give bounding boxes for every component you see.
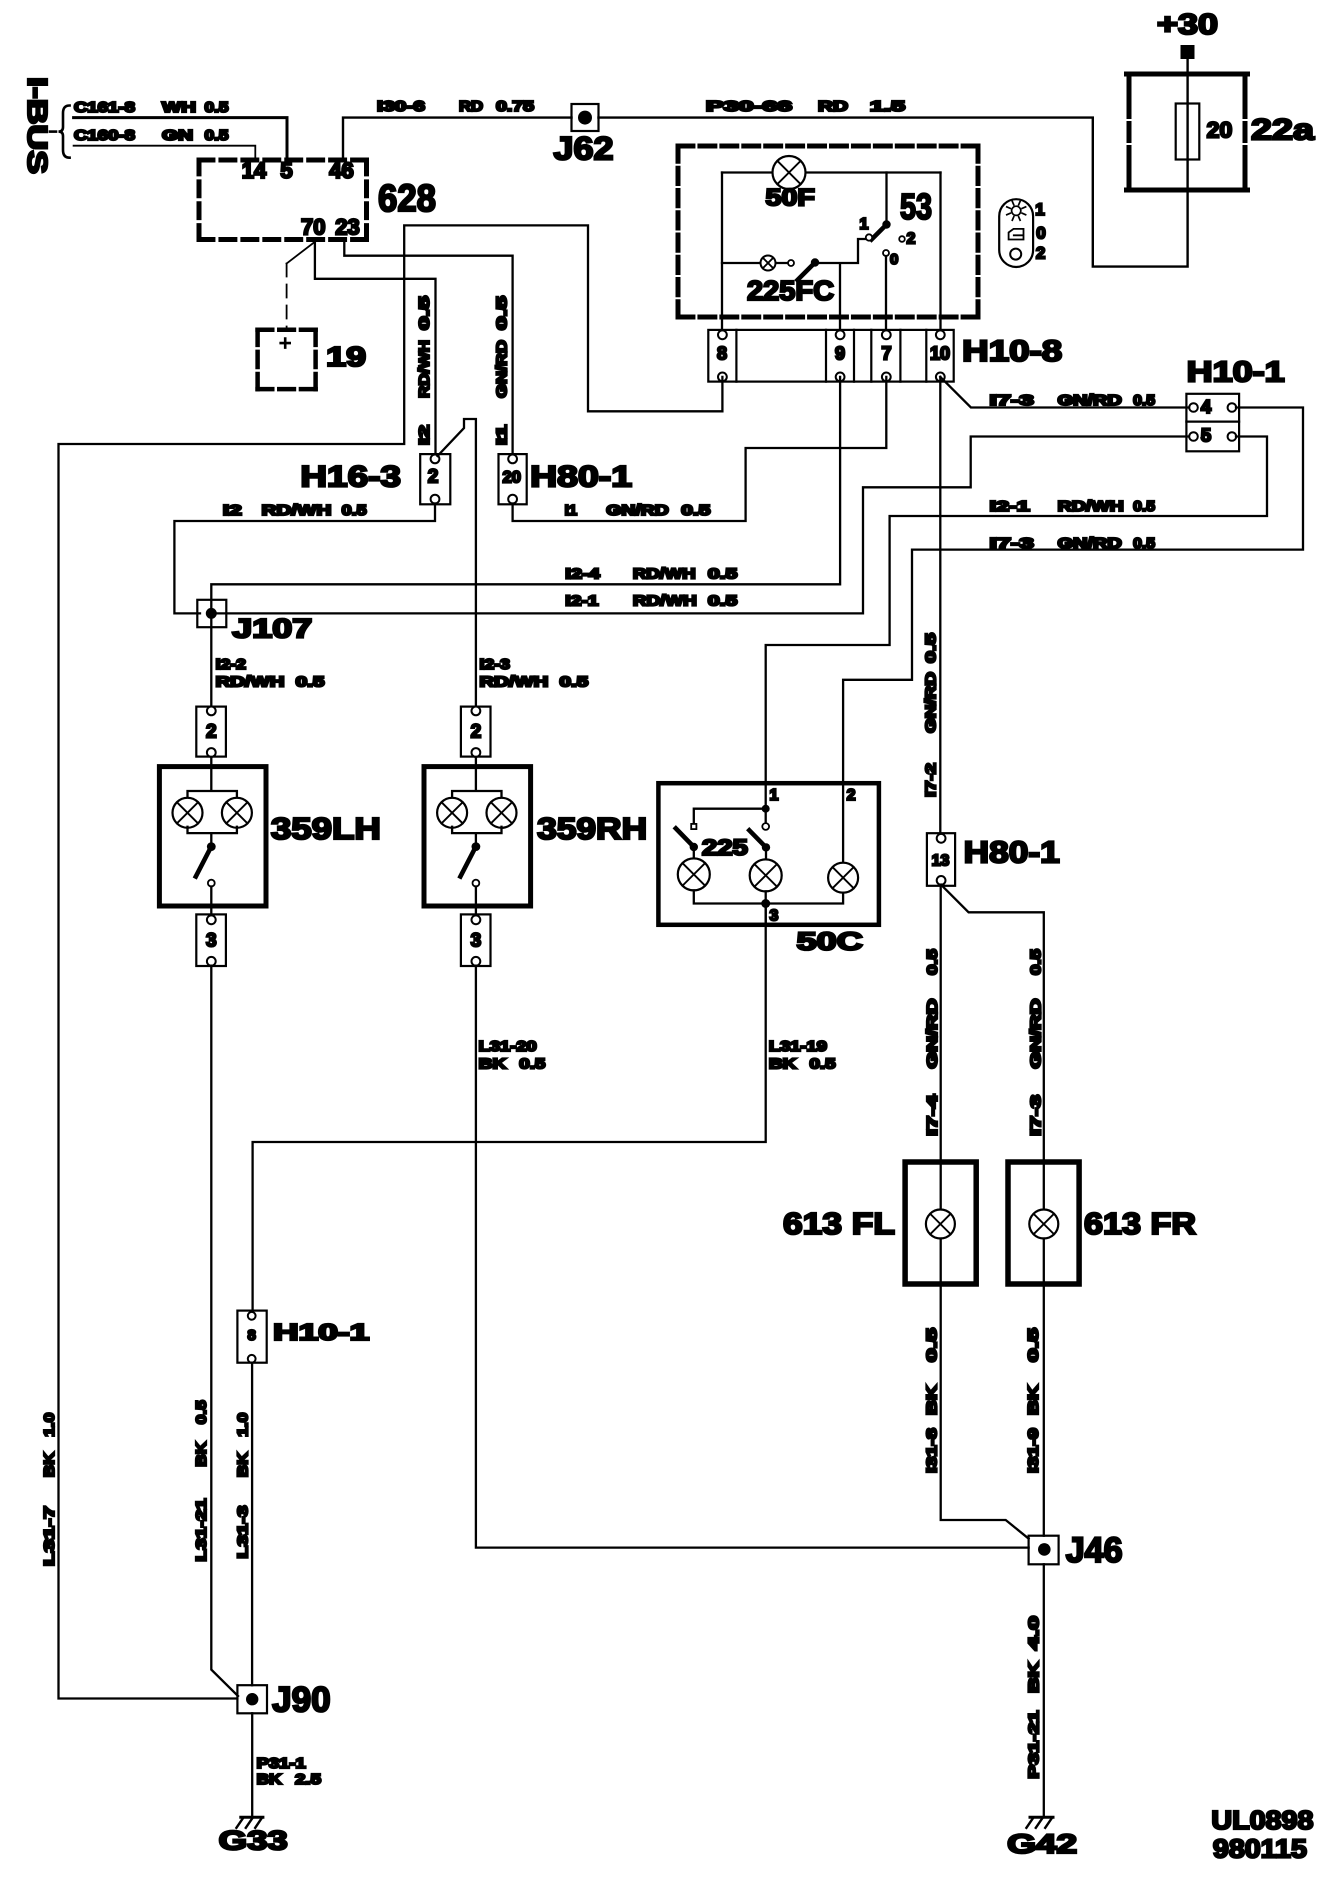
wire I7-3 GN/RD 0.5 (H80-1 pin 13 to 613FR) xyxy=(941,885,1044,1210)
svg-text:2.5: 2.5 xyxy=(295,1771,321,1788)
svg-text:0.5: 0.5 xyxy=(519,1056,545,1073)
wire I2-1 RD/WH 0.5 (J107 to H10-1 pin 5) xyxy=(211,437,1189,614)
wire I31-9 BK 0.5 (613FR to J46) xyxy=(1043,1239,1045,1536)
svg-text:359LH: 359LH xyxy=(271,811,381,846)
wire C161-8 WH 0.5 (I-BUS to 628 pin 5) xyxy=(74,118,287,160)
connector 359LH pin 2 xyxy=(196,707,226,757)
svg-text:628: 628 xyxy=(378,178,436,220)
svg-text:19: 19 xyxy=(326,341,366,372)
switch 53 common blade xyxy=(885,173,887,222)
svg-text:0: 0 xyxy=(1036,224,1045,243)
fuse 20 xyxy=(1176,104,1200,160)
svg-text:BK: BK xyxy=(1026,1662,1043,1693)
svg-text:46: 46 xyxy=(329,158,353,183)
svg-text:4: 4 xyxy=(1201,396,1212,417)
svg-text:20: 20 xyxy=(1207,118,1233,143)
svg-text:0.5: 0.5 xyxy=(923,633,940,663)
svg-text:I2-1: I2-1 xyxy=(565,592,598,609)
svg-text:WH: WH xyxy=(162,99,196,116)
svg-text:UL0898: UL0898 xyxy=(1211,1805,1313,1835)
svg-text:H16-3: H16-3 xyxy=(300,461,401,494)
svg-text:2: 2 xyxy=(847,787,856,804)
wire 53 internal top rail xyxy=(722,171,941,173)
wire 53 internal left rail xyxy=(721,173,723,335)
svg-text:C160-8: C160-8 xyxy=(74,127,135,144)
svg-text:3: 3 xyxy=(471,931,482,952)
svg-text:2: 2 xyxy=(907,231,916,248)
connector H80-1 pin 13 xyxy=(927,833,955,886)
connector 359RH pin 3 xyxy=(461,914,491,966)
svg-text:I7-3: I7-3 xyxy=(990,535,1034,552)
svg-text:H10-1: H10-1 xyxy=(273,1319,369,1345)
wire L31-19 BK 0.5 (50C pin 3 to H10-1 pin 8) xyxy=(253,904,766,1314)
junction J46 xyxy=(1029,1536,1059,1565)
wire I1 GN/RD 0.5 (628 pin 23 to H80-1 pin 20) xyxy=(344,240,512,455)
svg-text:0.5: 0.5 xyxy=(416,296,433,330)
wire to backup unit 19 (dashed) xyxy=(287,242,315,264)
svg-text:BK: BK xyxy=(769,1056,797,1073)
wire C160-8 GN 0.5 (I-BUS to 628 pin 14) xyxy=(74,146,256,160)
I-BUS brace xyxy=(59,106,70,158)
wire I2 (H16-3 pin 2 to J107) xyxy=(174,504,435,614)
switch unit 359LH xyxy=(159,767,266,906)
svg-text:J107: J107 xyxy=(232,614,312,644)
svg-text:0: 0 xyxy=(890,251,898,268)
wire 225FC branch xyxy=(722,239,866,335)
wire I31-8 BK 0.5 (613FL to J46) xyxy=(941,1239,1029,1539)
ground G42 xyxy=(1030,1816,1053,1819)
svg-text:0.5: 0.5 xyxy=(193,1400,210,1424)
svg-text:P30-66: P30-66 xyxy=(706,98,792,115)
ground G33 xyxy=(241,1816,263,1819)
svg-text:GN/RD: GN/RD xyxy=(1058,392,1122,409)
wire H16-3 pin2 branch to 359RH (diagonal jog) xyxy=(438,419,476,706)
svg-text:0.5: 0.5 xyxy=(708,566,737,583)
svg-text:GN/RD: GN/RD xyxy=(923,672,940,733)
svg-text:10: 10 xyxy=(930,344,950,364)
svg-text:613 FL: 613 FL xyxy=(783,1206,895,1241)
svg-text:1.0: 1.0 xyxy=(41,1413,58,1437)
svg-text:9: 9 xyxy=(835,344,845,364)
wire I2-4 RD/WH 0.5 (J107 to H10-8 pin 9) xyxy=(211,377,840,614)
svg-text:L31-20: L31-20 xyxy=(479,1038,537,1055)
svg-text:0.5: 0.5 xyxy=(205,127,229,144)
svg-text:G33: G33 xyxy=(219,1826,288,1856)
svg-text:RD/WH: RD/WH xyxy=(480,673,549,690)
svg-text:50C: 50C xyxy=(797,928,863,956)
switch blade (middle) xyxy=(749,830,763,844)
svg-text:2: 2 xyxy=(206,722,217,743)
svg-text:225: 225 xyxy=(702,835,748,860)
svg-text:+30: +30 xyxy=(1157,9,1218,41)
lamp 50C middle xyxy=(750,859,782,891)
wire I2-1 RD/WH 0.5 (H10-1 pin 5 to 50C pin 1) xyxy=(766,437,1267,809)
svg-text:13: 13 xyxy=(932,853,950,870)
wire contact 0 to pin 7 xyxy=(885,256,887,335)
svg-text:0.5: 0.5 xyxy=(924,1328,941,1362)
svg-text:RD/WH: RD/WH xyxy=(216,673,285,690)
svg-text:8: 8 xyxy=(248,1327,256,1344)
svg-text:I31-9: I31-9 xyxy=(1025,1428,1042,1473)
wire L31-3 BK 1.0 (H10-1 pin 8 to J90) xyxy=(251,1363,253,1686)
svg-text:H80-1: H80-1 xyxy=(530,461,632,494)
svg-text:0.5: 0.5 xyxy=(342,502,367,519)
connector 359RH pin 2 xyxy=(461,707,491,757)
svg-text:RD/WH: RD/WH xyxy=(262,502,332,519)
svg-text:0.5: 0.5 xyxy=(708,592,737,609)
icon headlight (sun) xyxy=(1007,201,1026,220)
svg-text:3: 3 xyxy=(206,931,217,952)
svg-text:3: 3 xyxy=(770,908,779,925)
junction J90 xyxy=(237,1685,267,1713)
connector H80-1 pin 20 xyxy=(499,454,527,504)
svg-text:J62: J62 xyxy=(554,131,614,167)
svg-text:50F: 50F xyxy=(766,185,815,212)
svg-text:0.5: 0.5 xyxy=(681,502,710,519)
svg-text:BK: BK xyxy=(1025,1385,1042,1415)
switch unit 359RH xyxy=(424,767,531,906)
wire 53 right rail to pin 10 xyxy=(939,173,941,335)
wire I1 GN/RD 0.5 (H80-1 pin 20 to H10-8 pin 7) xyxy=(513,377,887,521)
svg-text:I31-8: I31-8 xyxy=(924,1428,941,1473)
connector H10-8 xyxy=(708,330,953,382)
svg-text:I1: I1 xyxy=(494,425,511,445)
switch blade 225 (left) xyxy=(676,828,691,843)
svg-text:I2-3: I2-3 xyxy=(480,656,510,673)
svg-text:L31-7: L31-7 xyxy=(41,1506,58,1566)
light switch 53 (dashed box) xyxy=(678,144,978,149)
lamp 50C right xyxy=(828,863,858,893)
svg-text:I30-6: I30-6 xyxy=(377,98,425,115)
svg-text:I2-2: I2-2 xyxy=(216,656,246,673)
junction J62 xyxy=(572,104,599,131)
svg-text:H10-1: H10-1 xyxy=(1187,356,1285,388)
svg-text:I2-4: I2-4 xyxy=(565,566,600,583)
svg-text:RD/WH: RD/WH xyxy=(633,592,697,609)
svg-text:22a: 22a xyxy=(1251,114,1314,147)
svg-text:225FC: 225FC xyxy=(747,275,834,306)
svg-text:0.5: 0.5 xyxy=(810,1056,836,1073)
svg-text:P31-1: P31-1 xyxy=(257,1755,306,1772)
fog lamp 613 FL xyxy=(905,1162,976,1284)
svg-text:0.5: 0.5 xyxy=(1028,949,1045,975)
icon parking light xyxy=(1009,229,1024,240)
svg-text:I7-3: I7-3 xyxy=(990,392,1034,409)
connector H16-3 pin 2 xyxy=(420,454,450,504)
svg-text:4.0: 4.0 xyxy=(1026,1616,1043,1650)
svg-text:J90: J90 xyxy=(272,1681,331,1720)
svg-text:C161-8: C161-8 xyxy=(74,99,135,116)
svg-text:J46: J46 xyxy=(1066,1531,1123,1570)
svg-text:0.5: 0.5 xyxy=(494,296,511,330)
fuse holder 22a (dashed box) xyxy=(1127,74,1248,190)
svg-text:I7-4: I7-4 xyxy=(924,1094,941,1136)
svg-text:BK: BK xyxy=(257,1771,282,1788)
svg-text:I2-1: I2-1 xyxy=(990,498,1030,515)
svg-text:1: 1 xyxy=(1035,200,1044,219)
switch blade 359RH xyxy=(472,842,481,851)
svg-text:359RH: 359RH xyxy=(537,811,647,846)
control unit 628 (dashed box) xyxy=(199,158,367,163)
wire I7-3 GN/RD 0.5 (H10-1 pin 4 to 50C pin 2) xyxy=(843,408,1303,863)
lamp 359LH right xyxy=(222,798,252,828)
svg-text:2: 2 xyxy=(471,722,482,743)
svg-text:0.5: 0.5 xyxy=(1133,392,1155,409)
svg-text:2: 2 xyxy=(428,467,439,488)
svg-text:0.5: 0.5 xyxy=(1025,1328,1042,1362)
svg-text:L31-19: L31-19 xyxy=(769,1038,827,1055)
wire P31-21 BK 4.0 (J46 to G42) xyxy=(1043,1564,1045,1816)
wire I7-2 GN/RD 0.5 (H10-8 pin 10 to H80-1 pin 13) xyxy=(939,377,941,834)
svg-text:0.5: 0.5 xyxy=(205,99,229,116)
svg-text:53: 53 xyxy=(900,186,932,227)
svg-text:613 FR: 613 FR xyxy=(1084,1206,1196,1241)
svg-text:I1: I1 xyxy=(565,502,578,519)
switch position indicator (pill) xyxy=(999,199,1033,267)
svg-text:23: 23 xyxy=(335,214,359,239)
svg-text:1: 1 xyxy=(860,216,869,233)
svg-text:RD/WH: RD/WH xyxy=(633,566,696,583)
lamp 359RH right xyxy=(487,798,517,828)
svg-text:BK: BK xyxy=(924,1385,941,1415)
svg-text:8: 8 xyxy=(717,344,727,364)
switch blade 359LH xyxy=(207,842,216,851)
svg-text:L31-21: L31-21 xyxy=(193,1499,210,1562)
svg-text:1.0: 1.0 xyxy=(235,1413,252,1437)
svg-text:0.5: 0.5 xyxy=(1133,498,1155,515)
svg-text:BK: BK xyxy=(193,1442,210,1467)
contact 1 xyxy=(866,234,872,240)
svg-text:RD: RD xyxy=(818,98,848,115)
lamp 359LH left xyxy=(173,798,203,828)
wire L31-20 BK 0.5 (359RH pin 3 to J46) xyxy=(476,966,1029,1548)
svg-text:GN/RD: GN/RD xyxy=(1058,535,1122,552)
svg-text:1.5: 1.5 xyxy=(870,98,905,115)
svg-text:0.5: 0.5 xyxy=(1133,535,1155,552)
svg-text:H10-8: H10-8 xyxy=(962,335,1062,368)
svg-text:RD/WH: RD/WH xyxy=(416,340,433,398)
lamp 50C left xyxy=(678,858,710,890)
fog lamp 613 FR xyxy=(1008,1162,1079,1284)
svg-text:RD/WH: RD/WH xyxy=(1058,498,1124,515)
icon off (circle) xyxy=(1010,249,1021,260)
svg-text:BK: BK xyxy=(235,1452,252,1477)
svg-text:70: 70 xyxy=(301,214,325,239)
connector 359LH pin 3 xyxy=(196,914,226,966)
svg-text:I-BUS: I-BUS xyxy=(22,77,53,174)
hazard flasher unit 50C xyxy=(658,783,879,925)
svg-text:GN: GN xyxy=(162,127,193,144)
svg-text:GN/RD: GN/RD xyxy=(494,340,511,398)
svg-text:5: 5 xyxy=(1201,425,1211,446)
lamp 225FC (rheostat lamp) xyxy=(761,256,776,271)
svg-text:I7-3: I7-3 xyxy=(1028,1095,1045,1136)
svg-text:2: 2 xyxy=(1036,244,1045,263)
svg-text:P31-21: P31-21 xyxy=(1026,1711,1043,1779)
svg-text:BK: BK xyxy=(41,1452,58,1477)
svg-text:0.5: 0.5 xyxy=(296,673,325,690)
lamp 50F (switch illumination) xyxy=(773,156,806,189)
svg-text:14: 14 xyxy=(242,158,267,183)
svg-text:0.5: 0.5 xyxy=(924,949,941,975)
svg-text:0.75: 0.75 xyxy=(496,98,534,115)
wire I2-2 RD/WH 0.5 (J107 to 359LH pin 2) xyxy=(210,613,212,706)
svg-text:GN/RD: GN/RD xyxy=(1028,998,1045,1068)
svg-text:980115: 980115 xyxy=(1213,1834,1307,1864)
battery backup 19 (dashed box) xyxy=(258,327,316,332)
contact 2 xyxy=(899,236,905,242)
wire L31-21 BK 0.5 (359LH pin 3 to J90) xyxy=(211,966,238,1696)
wire P30-66 RD 1.5 (J62 to fuse 22a) xyxy=(599,118,1188,267)
svg-text:H80-1: H80-1 xyxy=(964,835,1060,870)
lamp 359RH left xyxy=(437,798,467,828)
wire P31-1 BK 2.5 (J90 to G33) xyxy=(251,1713,253,1816)
svg-text:GN/RD: GN/RD xyxy=(924,998,941,1068)
svg-text:I2: I2 xyxy=(416,425,433,445)
switch blade 225FC xyxy=(811,258,819,266)
svg-text:5: 5 xyxy=(280,158,292,183)
svg-text:I7-2: I7-2 xyxy=(923,763,940,797)
svg-text:BK: BK xyxy=(479,1056,507,1073)
contact 0 xyxy=(883,250,889,256)
svg-text:GN/RD: GN/RD xyxy=(606,502,669,519)
wire +30 to fuse xyxy=(1186,59,1188,190)
wire I7-4 GN/RD 0.5 (H80-1 pin 13 to 613FL) xyxy=(940,885,942,1210)
svg-text:0.5: 0.5 xyxy=(560,673,589,690)
50C internal wiring xyxy=(762,805,770,813)
svg-text:I2: I2 xyxy=(223,502,242,519)
svg-text:1: 1 xyxy=(770,787,779,804)
svg-text:L31-3: L31-3 xyxy=(235,1506,252,1559)
svg-text:RD: RD xyxy=(459,98,483,115)
wire L31-7 BK 1.0 (H10-8 pin 8 to J90) xyxy=(59,225,723,1698)
wire I7-3 GN/RD 0.5 (H10-8 pin 10 to H10-1 pin 4) xyxy=(940,377,1189,408)
connector H10-1 pin 8 xyxy=(237,1311,266,1363)
wire I2 RD/WH 0.5 (628 pin 70 to H16-3 pin 2) xyxy=(315,240,436,455)
svg-text:7: 7 xyxy=(881,344,891,364)
wire I30-6 RD 0.75 (628 pin 46 to J62) xyxy=(343,118,572,160)
svg-text:20: 20 xyxy=(503,469,521,487)
junction J107 xyxy=(197,600,226,627)
svg-text:G42: G42 xyxy=(1007,1829,1077,1859)
